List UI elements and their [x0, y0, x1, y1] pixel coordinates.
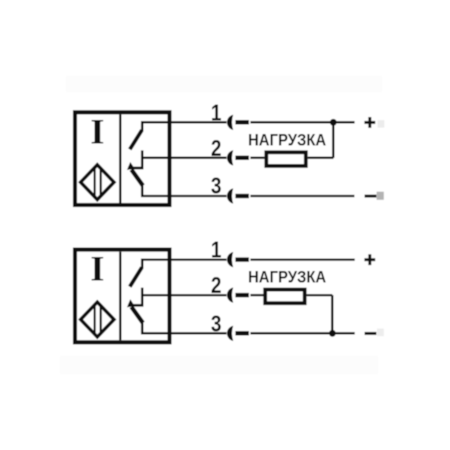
svg-text:2: 2	[211, 272, 222, 298]
artifact square at plus (B1)	[378, 120, 385, 127]
actuator foot line (B2)	[128, 304, 143, 307]
wire 1 to plus supply (B1)	[250, 121, 354, 123]
artifact square at minus (B1)	[377, 192, 384, 200]
wire 2 to load (B2)	[250, 294, 264, 296]
connector pin contact wire3 (B2)	[235, 331, 249, 335]
connector pin contact wire3 (B1)	[235, 194, 249, 198]
actuator arrow head (B1)	[127, 162, 135, 170]
wire 3 to minus supply (B2)	[250, 332, 354, 334]
wire node B vertical (B2)	[331, 295, 333, 333]
faint scan ghost band bottom	[60, 356, 378, 374]
load resistor R2	[265, 290, 305, 304]
wire 2 (B1 to connector)	[141, 157, 227, 159]
plus terminal (B1)	[364, 117, 375, 128]
wire 2 to load (B1)	[250, 157, 264, 159]
actuator lower diagonal (B1)	[131, 170, 143, 186]
wire 3 (B1 to connector)	[141, 195, 227, 197]
svg-text:3: 3	[211, 310, 222, 336]
wire 2 (B2 to connector)	[141, 294, 227, 296]
connector socket contact wire2 (B1)	[227, 150, 233, 165]
proximity switch diamond symbol (B2)	[81, 302, 114, 337]
switching element contact stub pin3 (B1)	[141, 184, 144, 196]
svg-text:НАГРУЗКА: НАГРУЗКА	[248, 130, 326, 149]
svg-text:I: I	[90, 249, 104, 289]
faint scan ghost band top	[66, 76, 382, 92]
compartment divider B1	[119, 114, 121, 203]
svg-text:3: 3	[211, 173, 222, 199]
connector pin contact wire2 (B1)	[235, 156, 249, 160]
sensor body box B2	[75, 250, 170, 343]
connector socket contact wire1 (B2)	[227, 252, 233, 267]
switching element contact stub pin1 (B2)	[141, 259, 144, 269]
artifact square at minus (B2)	[377, 329, 384, 337]
node A junction dot (B1)	[330, 119, 337, 126]
wire node A vertical (B1)	[332, 122, 334, 158]
wire 1 (B1 to connector)	[141, 121, 227, 123]
switching element contact stub pin2 (B1)	[141, 150, 144, 169]
connector pin contact wire1 (B1)	[235, 120, 249, 124]
svg-text:НАГРУЗКА: НАГРУЗКА	[248, 268, 326, 287]
node B junction dot (B2)	[329, 330, 336, 337]
wire resistor R2 to node B	[307, 294, 333, 296]
connector socket contact wire3 (B1)	[227, 188, 233, 203]
switch arm upper diagonal (B2)	[130, 267, 142, 286]
minus terminal (B2)	[365, 332, 377, 335]
svg-text:1: 1	[211, 237, 222, 263]
connector pin contact wire2 (B2)	[235, 293, 249, 297]
wire resistor R1 to node A	[308, 157, 334, 159]
actuator arrow head (B2)	[127, 299, 135, 307]
wire 3 (B2 to connector)	[141, 332, 227, 334]
actuator lower diagonal (B2)	[131, 307, 143, 323]
switch arm upper diagonal (B1)	[130, 130, 142, 149]
connector pin contact wire1 (B2)	[235, 257, 249, 261]
svg-text:I: I	[90, 111, 104, 151]
proximity switch diamond symbol (B1)	[81, 165, 114, 200]
plus terminal (B2)	[364, 254, 375, 265]
switching element contact stub pin3 (B2)	[141, 322, 144, 334]
wire 1 (B2 to connector)	[141, 258, 227, 260]
svg-text:1: 1	[211, 99, 222, 125]
connector socket contact wire1 (B1)	[227, 115, 233, 130]
wire 1 to plus supply (B2)	[250, 258, 354, 260]
switching element contact stub pin2 (B2)	[141, 288, 144, 307]
minus terminal (B1)	[365, 195, 377, 198]
wire 3 to minus supply (B1)	[250, 195, 354, 197]
sensor body box B1	[75, 112, 170, 205]
compartment divider B2	[119, 252, 121, 341]
connector socket contact wire3 (B2)	[227, 326, 233, 341]
connector socket contact wire2 (B2)	[227, 288, 233, 303]
svg-text:2: 2	[211, 135, 222, 161]
actuator foot line (B1)	[128, 167, 143, 170]
load resistor R1	[266, 152, 306, 166]
switching element contact stub pin1 (B1)	[141, 121, 144, 131]
